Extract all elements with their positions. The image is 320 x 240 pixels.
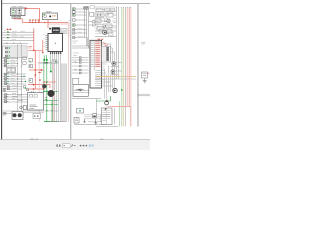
wire row 121.8 [88, 121, 102, 123]
relay box on rows [93, 114, 97, 118]
top frame line [2, 3, 150, 5]
relay box A [11, 8, 26, 16]
wire rows to connector [72, 46, 90, 48]
toolbar slash and total [72, 144, 76, 147]
right frame line [138, 4, 140, 127]
bus pink 2 [128, 8, 130, 106]
diode box right page [73, 84, 88, 96]
component box small above diode [73, 78, 79, 84]
text box lower [28, 93, 44, 111]
toolbar input text [63, 145, 65, 147]
wire red stub left [7, 28, 12, 30]
wire bundle below ECU [53, 54, 61, 122]
diode D2 [37, 115, 39, 117]
wire verticals right of connector [105, 44, 115, 99]
diode pack [33, 114, 41, 119]
wires out of connector [102, 44, 115, 86]
node junction dots mid [17, 58, 22, 67]
wire green horizontal 2 [44, 99, 58, 101]
connector block pins [53, 30, 58, 32]
node junction dots low [17, 74, 22, 85]
label text 86-89 [13, 86, 18, 89]
bus band marks [44, 62, 48, 63]
component box marks [8, 69, 15, 72]
red annotation dashes [29, 47, 33, 49]
transistor Q1 [112, 62, 116, 66]
gray band wide [62, 63, 67, 121]
wire transistor stubs [111, 63, 123, 75]
wire vertical collector 1 [84, 9, 86, 38]
right page: switch row 2 [73, 11, 87, 13]
label text rows low [11, 73, 16, 83]
switch S4 ticks [6, 42, 21, 45]
transistor Q2 wedge [112, 71, 115, 73]
node red dot 84 [33, 84, 35, 86]
wire row 31 [95, 30, 116, 32]
wire vertical left riser 2 [21, 44, 23, 113]
wire long 98.6 [72, 98, 101, 100]
wire row L2 [3, 34, 34, 36]
starter motor M1 [13, 113, 17, 117]
label dashes rows [4, 30, 25, 39]
page background [0, 0, 150, 150]
ground symbol G4 [143, 81, 147, 83]
ECU center dot [55, 43, 56, 44]
transistor Q3 wedge [114, 89, 116, 91]
wire green vertical 1 [43, 61, 45, 91]
wire row L3 [3, 37, 34, 39]
bus pink 1 [126, 8, 128, 107]
node bus junctions [29, 22, 48, 23]
node red dots riser [35, 69, 37, 76]
wire vertical 87.5 [87, 38, 89, 47]
wire vertical 100.8 [100, 115, 102, 122]
sensor rects bottom rows [4, 94, 6, 103]
gauge cluster extra wires [95, 7, 117, 34]
gauge cluster extra boxes [90, 6, 115, 36]
ignition switch circle 1 [83, 6, 86, 9]
node green pin A1 [12, 10, 14, 12]
wire rows 112.8 [23, 112, 44, 114]
battery symbol [3, 89, 6, 92]
smudge left above bar [30, 138, 38, 140]
node green square 82 [46, 81, 48, 83]
relay small right [74, 118, 79, 124]
transistor Q4 wedge [106, 99, 109, 102]
wire vertical right margin [136, 4, 138, 127]
left page edge [1, 0, 3, 140]
node green dots row2 [46, 100, 53, 106]
terminal marks near alternator [45, 98, 47, 100]
gauge cluster box 2 [106, 13, 113, 17]
wire green branch low [119, 101, 121, 126]
wire red horizontal 89 [26, 88, 44, 90]
wire green drop 1 [43, 55, 45, 59]
gray bus band [38, 62, 58, 63]
bus tick tops [116, 7, 130, 8]
wire vertical 96.7 [96, 99, 98, 115]
node green fuse dot [79, 110, 81, 112]
pin table rows [103, 48, 106, 60]
wire gray long 79 [95, 78, 136, 80]
sensor rects rows low [4, 73, 6, 85]
relay K2 contact dot [49, 15, 51, 17]
bus gray 3 [124, 8, 126, 126]
terminal table low [102, 108, 113, 125]
wire pink bottom jog [112, 106, 131, 126]
wire red riser mid [33, 28, 35, 50]
gauge cluster top box [96, 9, 103, 12]
relay A contact marks [14, 10, 16, 14]
wire row mid 70 [72, 69, 89, 71]
junction symbols [6, 47, 8, 57]
starter box [12, 112, 23, 120]
sensor box S6 [29, 65, 33, 68]
diode symbol inside [79, 89, 81, 91]
gauge needle ticks [107, 19, 115, 23]
junction rows [5, 48, 27, 56]
wire row L5 [3, 42, 29, 44]
diode D1 [34, 115, 36, 117]
solenoid marks [143, 74, 147, 76]
wire row 124.6 [74, 124, 105, 126]
center page divider [70, 4, 72, 140]
sensor marks 86-91 [7, 86, 9, 90]
fuse box right page [77, 109, 84, 114]
right page: switch row 7 [73, 32, 87, 34]
right page: switch row 3 [73, 14, 87, 16]
wire green bottom bus [44, 121, 59, 123]
relay A pin mark [19, 12, 20, 13]
motor small M2 [42, 84, 46, 88]
pin table dark pins [106, 47, 109, 61]
wire orange long [95, 76, 136, 78]
node red dot 72 [39, 72, 40, 73]
wire rows left mid [3, 59, 18, 67]
text box sub rects [30, 95, 38, 98]
relay cluster small [20, 106, 27, 110]
ECU connector J1 [90, 40, 102, 88]
wire green drop 2 [46, 55, 48, 59]
diode box marks [76, 88, 85, 91]
bus gray 2 [117, 8, 119, 79]
switch dots mid [7, 58, 8, 64]
junction box small gray [52, 60, 57, 63]
node red dots low [39, 79, 45, 83]
node green dot bottom left [25, 87, 27, 89]
status bar background [0, 140, 150, 150]
text box lines [30, 105, 38, 108]
bus pink outer [130, 8, 132, 126]
connector plug P1 [12, 16, 16, 18]
node dot row 90 [80, 90, 81, 91]
node green dots 110 [46, 110, 53, 111]
wire green horizontal 3 [44, 103, 58, 105]
wire vertical collector 3 [88, 10, 90, 49]
transistor Q4 [105, 101, 109, 105]
gauge circle dot [104, 32, 106, 34]
wire double right margin [137, 94, 150, 96]
wire red feed top [26, 9, 39, 23]
node red cross [40, 69, 42, 71]
relay cluster right mid [23, 86, 29, 91]
wire green vertical 4 [51, 100, 53, 121]
transistor Q2 [111, 70, 115, 74]
node green dot mid [50, 71, 52, 73]
node green bus dot [121, 89, 123, 91]
node red dots left [7, 29, 11, 30]
label text above relay box A [12, 6, 23, 8]
wire green return vertical [96, 96, 110, 101]
connector divider [93, 40, 95, 70]
gauge cluster fine lines [95, 14, 113, 27]
text block box [60, 29, 67, 34]
red annotation scribble [98, 42, 109, 46]
label text above relay box K2 [46, 11, 52, 14]
fuse F1 [29, 19, 31, 22]
wire red right low [108, 106, 131, 108]
gauge cluster wires [101, 15, 116, 26]
node red junction [33, 50, 44, 54]
fuse boxes small right [90, 13, 96, 27]
label text rows mid [11, 58, 16, 66]
gauge dial [107, 19, 111, 23]
switch S3 [7, 37, 9, 39]
component ticks bottom left [5, 94, 9, 102]
node green pin A2 [12, 12, 14, 14]
wire row mid 60 [72, 59, 89, 61]
wire pink link [48, 23, 69, 25]
switch ticks low [7, 73, 9, 84]
text box top ticks [32, 91, 34, 93]
wire bottom join right page [96, 125, 118, 127]
ECU block U1 [48, 34, 63, 52]
wire row mid 62.5 [72, 62, 89, 64]
relay box K2 [43, 13, 58, 20]
label dashes bottom left [12, 94, 23, 101]
connector red title [98, 38, 104, 40]
wire row 90 [74, 89, 90, 91]
label text rows 53-55 [73, 53, 79, 55]
connector pink cells [95, 41, 101, 67]
wire vertical left riser 1 [17, 44, 19, 113]
alternator G1 [48, 90, 54, 96]
switch S1 [7, 31, 9, 33]
wire red relay drop [47, 20, 49, 29]
connector block dark [52, 28, 60, 33]
wire green vertical 3 [50, 63, 52, 71]
toolbar page icons [57, 145, 61, 147]
connector left pin text [91, 42, 94, 67]
wire solenoid down [144, 78, 146, 81]
smudge right above bar [100, 138, 104, 140]
relay K2 orange marks [52, 15, 56, 17]
right page: switch row 8 [73, 36, 87, 38]
wire red stub 82 [44, 81, 56, 83]
component box mid [7, 68, 16, 73]
sensor boxes top [97, 27, 112, 34]
fuse F2 [32, 19, 34, 22]
toolbar page input [62, 144, 70, 148]
ECU pin labels [44, 35, 45, 47]
wire battery to starter [3, 113, 13, 115]
toolbar zoom icons [80, 145, 88, 147]
solenoid red tick [148, 72, 150, 74]
connector red pin text [96, 42, 100, 67]
relay A coil dot [19, 10, 21, 12]
gray band edges [62, 63, 67, 121]
wire green pin drop [50, 54, 52, 63]
node green square 2 [46, 59, 48, 61]
fuse F3 [35, 19, 37, 22]
wire row 36.6 [95, 36, 116, 38]
wire short rows out of connector [102, 58, 105, 85]
bus cream [123, 8, 125, 126]
terminal divider [106, 108, 108, 125]
node green pin K2 [44, 14, 45, 15]
wire red horizontal 70 [29, 69, 44, 71]
gauge circle big [103, 30, 107, 34]
wire rows 111 [3, 110, 59, 112]
connector lower pin dashes [95, 70, 101, 85]
wire rows bottom left [3, 95, 28, 103]
wire pink vertical b [52, 63, 54, 121]
junction box left [3, 46, 28, 58]
transistor Q1 wedge [113, 62, 116, 64]
wire stubs small right [89, 22, 99, 26]
wire rows 86-89 left [3, 87, 23, 92]
wire rows 114-118 [84, 115, 110, 119]
node dark dot 109 [105, 108, 107, 110]
switch S2 [7, 33, 9, 36]
ground symbol G3 [83, 119, 85, 123]
page label text column [69, 21, 70, 36]
fuse F4 [38, 19, 40, 22]
wire red horizontal 84 [28, 85, 50, 88]
ignition switch circle 2 [86, 6, 89, 9]
node green dots junction [9, 47, 10, 56]
wire rows left low [3, 74, 27, 84]
toolbar view icons pale [89, 144, 94, 146]
ECU left pins [45, 35, 48, 49]
wire bottom join gray [50, 121, 66, 123]
wire vertical table right [113, 108, 115, 125]
bus green [121, 8, 123, 126]
status bar divider [0, 139, 150, 141]
switch dots low [7, 76, 26, 82]
wire pink long vertical [67, 23, 69, 122]
wire pink vertical a [38, 50, 40, 121]
solenoid right margin [142, 72, 148, 78]
wire vertical collector 2 [86, 9, 88, 46]
gauge cluster box 4 [103, 24, 112, 28]
connector plug P2 [17, 16, 21, 18]
text block lines [61, 30, 66, 32]
wire red branch [28, 40, 43, 53]
ECU bottom pin row [50, 52, 61, 54]
transistor Q3 [113, 88, 117, 92]
gauge cluster box 1 [95, 13, 104, 17]
margin note text [141, 43, 146, 44]
wire red riser low [34, 50, 36, 89]
wire green horizontal 1 [43, 90, 58, 92]
wire red stub 72 [38, 71, 42, 73]
battery B1 plates [3, 113, 7, 115]
sensor box S7 [29, 79, 33, 83]
ground symbol G2 [94, 119, 97, 125]
sensor box S5 [29, 59, 33, 63]
right page: switch row 5 [73, 24, 87, 26]
wire row mid 57.5 [72, 57, 89, 59]
gauge cluster top wires [95, 10, 116, 12]
relay K2 coil circle [44, 15, 47, 18]
relay boxes right of rows [23, 57, 26, 64]
right page: switch row 4 [73, 19, 87, 21]
wire row 92 [74, 91, 90, 93]
node red dots 89 [33, 88, 45, 90]
relay small marks [75, 119, 78, 121]
right page: switch row 1 [73, 8, 87, 10]
node green square 1 [43, 59, 45, 61]
bus gray 1 [115, 8, 117, 79]
wire row L1 [3, 31, 34, 33]
right page: switch row 6 [73, 28, 87, 30]
wire red from plugs [14, 19, 23, 23]
wire row L4 [3, 40, 34, 42]
component small dark [49, 28, 51, 30]
label text rows 41-43 [73, 41, 79, 43]
wire row mid 66 [72, 65, 89, 67]
red label tag [25, 8, 27, 10]
wire row mid 73 [72, 72, 89, 74]
node green dots row1 [43, 91, 47, 93]
sensor rects rows mid [4, 58, 6, 67]
gauge marks [97, 14, 109, 26]
wire green vertical 2 [46, 61, 48, 122]
relay A inner block 1 [12, 9, 17, 15]
starter solenoid [18, 113, 22, 117]
relay A inner block 2 [18, 9, 21, 15]
wire red main bus [22, 22, 68, 24]
gauge cluster box 3 [95, 19, 101, 23]
terminal rows [103, 111, 111, 121]
pin table mid right [102, 46, 111, 62]
